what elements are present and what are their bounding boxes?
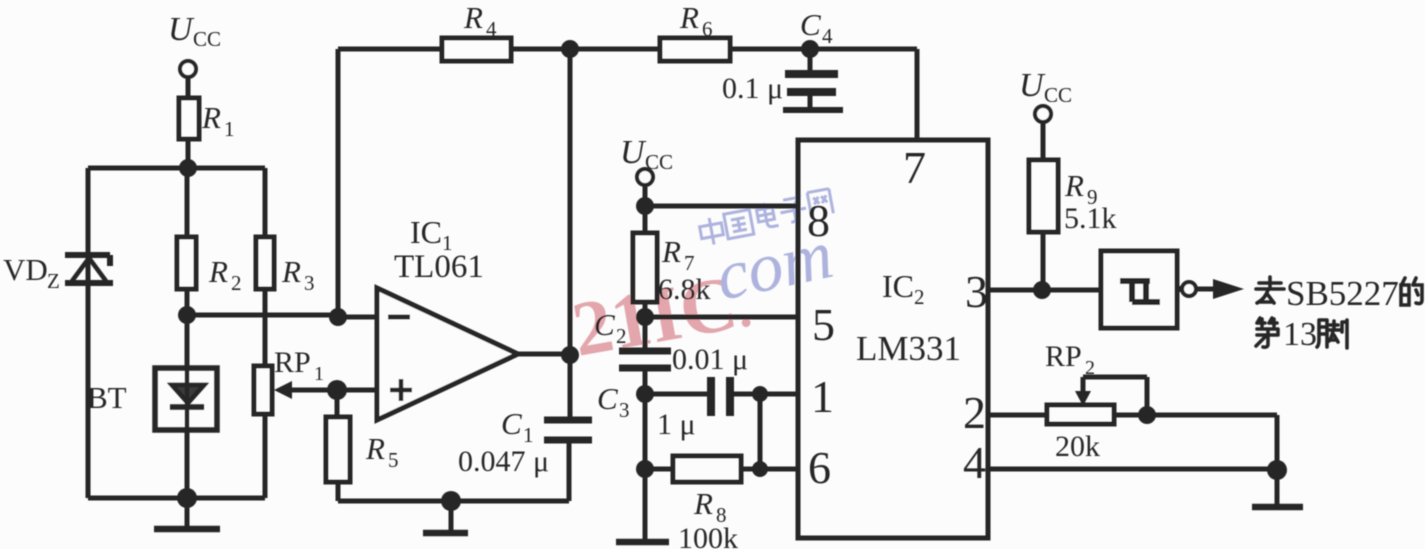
svg-text:4: 4: [963, 437, 986, 488]
svg-text:2: 2: [914, 285, 925, 309]
svg-text:4: 4: [822, 24, 833, 48]
svg-text:3: 3: [965, 266, 988, 317]
svg-text:6.8k: 6.8k: [658, 273, 711, 306]
svg-text:C: C: [597, 381, 618, 416]
svg-text:C: C: [594, 307, 615, 342]
svg-text:1: 1: [224, 117, 235, 141]
svg-text:R: R: [281, 254, 301, 289]
svg-text:R: R: [365, 431, 385, 466]
svg-text:TL061: TL061: [394, 249, 484, 285]
svg-text:5: 5: [812, 299, 835, 350]
svg-text:2: 2: [1085, 357, 1095, 379]
svg-text:IC: IC: [410, 214, 442, 250]
svg-text:BT: BT: [87, 380, 127, 415]
svg-text:0.047 μ: 0.047 μ: [458, 445, 549, 478]
svg-text:R: R: [463, 0, 483, 35]
svg-text:IC: IC: [882, 268, 914, 304]
svg-text:Z: Z: [47, 269, 60, 293]
svg-text:U: U: [620, 134, 647, 171]
svg-text:6: 6: [808, 442, 831, 493]
svg-text:13: 13: [1283, 316, 1317, 353]
svg-text:6: 6: [702, 17, 713, 41]
svg-text:1 μ: 1 μ: [657, 408, 696, 441]
svg-text:7: 7: [684, 251, 695, 275]
svg-text:CC: CC: [193, 27, 221, 51]
svg-text:U: U: [168, 11, 195, 48]
svg-text:3: 3: [619, 398, 630, 422]
svg-text:VD: VD: [3, 252, 48, 287]
svg-text:1: 1: [314, 363, 324, 385]
svg-text:R: R: [1064, 168, 1084, 203]
svg-text:C: C: [501, 406, 522, 441]
svg-text:1: 1: [523, 423, 534, 447]
svg-text:3: 3: [304, 271, 315, 295]
svg-text:R: R: [693, 486, 713, 521]
svg-text:1: 1: [811, 371, 834, 422]
svg-text:8: 8: [807, 195, 830, 246]
svg-text:20k: 20k: [1055, 430, 1100, 463]
svg-text:RP: RP: [1045, 340, 1082, 373]
svg-text:2: 2: [616, 324, 627, 348]
svg-text:0.01 μ: 0.01 μ: [672, 343, 748, 376]
svg-text:2: 2: [231, 271, 242, 295]
svg-text:5: 5: [388, 448, 399, 472]
svg-text:C: C: [800, 7, 821, 42]
svg-text:2: 2: [963, 387, 986, 438]
svg-text:R: R: [201, 100, 221, 135]
svg-text:4: 4: [486, 17, 497, 41]
svg-text:0.1 μ: 0.1 μ: [722, 72, 783, 105]
svg-text:U: U: [1019, 67, 1046, 104]
svg-text:R: R: [661, 234, 681, 269]
svg-text:CC: CC: [1044, 83, 1072, 107]
svg-text:R: R: [679, 0, 699, 35]
svg-text:R: R: [208, 254, 228, 289]
svg-text:7: 7: [903, 142, 926, 193]
svg-text:SB5227: SB5227: [1286, 274, 1399, 313]
svg-text:100k: 100k: [678, 522, 738, 549]
svg-text:RP: RP: [274, 346, 311, 379]
svg-text:CC: CC: [645, 150, 673, 174]
svg-text:5.1k: 5.1k: [1064, 202, 1117, 235]
svg-text:LM331: LM331: [856, 329, 961, 368]
